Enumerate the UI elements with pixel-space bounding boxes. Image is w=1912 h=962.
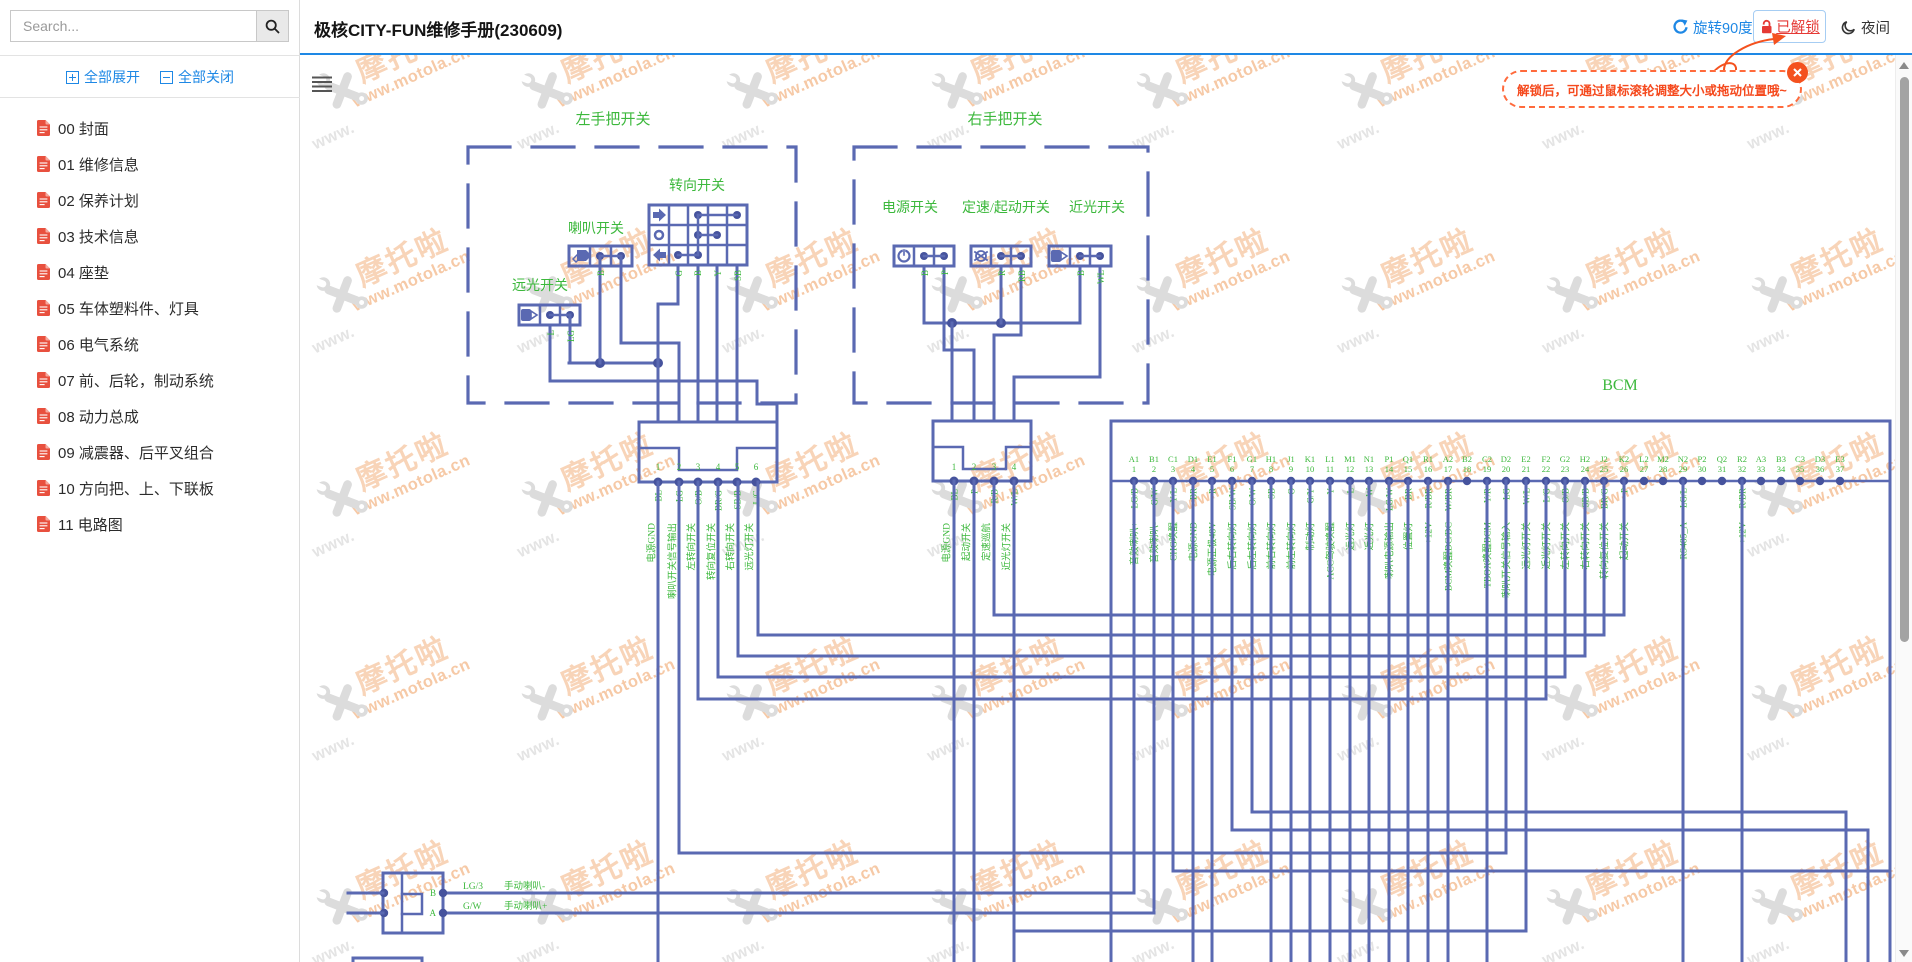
svg-text:B2: B2 [1462, 454, 1472, 464]
svg-text:喇叭开关: 喇叭开关 [568, 221, 624, 237]
wire: X1 pin1 GND down to bottom [657, 482, 660, 962]
svg-text:G1: G1 [1247, 454, 1257, 464]
svg-text:21: 21 [1522, 464, 1531, 474]
svg-text:手动喇叭-: 手动喇叭- [504, 880, 545, 892]
connector X1 pins [654, 478, 663, 487]
svg-text:D1: D1 [1188, 454, 1198, 464]
wire: node to pin1 [951, 323, 954, 421]
svg-text:B: B [1076, 270, 1086, 276]
wire: X2 pin2 start down [973, 481, 976, 962]
svg-text:15: 15 [1404, 464, 1413, 474]
wire: BCM L1 down [1329, 481, 1332, 962]
connector X2 pins [950, 477, 959, 486]
wire: horn left pin down [599, 256, 602, 363]
svg-text:16: 16 [1424, 464, 1433, 474]
wire: power right pin to pin2 [944, 266, 974, 421]
svg-text:4: 4 [1012, 462, 1017, 472]
wire: horn right pin to x679 [621, 256, 679, 422]
wire: BCM C2 down [1486, 481, 1489, 962]
svg-text:LG: LG [566, 330, 576, 342]
svg-text:1: 1 [656, 462, 661, 472]
wire: X2 pin1 GND down [953, 481, 956, 962]
svg-text:2: 2 [972, 462, 977, 472]
svg-text:LG/3: LG/3 [463, 882, 483, 892]
wire: X3 stub left A [348, 912, 383, 915]
svg-text:32: 32 [1738, 464, 1747, 474]
wire: BCM R1 down [1427, 481, 1430, 962]
svg-text:6: 6 [754, 462, 759, 472]
svg-text:远光开关: 远光开关 [512, 278, 568, 294]
BCM pin header line [1111, 480, 1890, 483]
svg-text:5: 5 [735, 462, 740, 472]
svg-text:P1: P1 [1385, 454, 1394, 464]
svg-text:转向开关: 转向开关 [669, 178, 725, 194]
svg-text:远光灯开关: 远光灯开关 [744, 523, 756, 571]
svg-text:30: 30 [1698, 464, 1707, 474]
svg-text:P: P [940, 270, 950, 275]
svg-text:9: 9 [1289, 464, 1293, 474]
wire: turn col3 down [697, 265, 700, 422]
svg-text:M2: M2 [1657, 454, 1669, 464]
svg-text:35: 35 [1796, 464, 1805, 474]
svg-text:27: 27 [1640, 464, 1649, 474]
wire: BCM C1 CHG wake to right [1173, 481, 1890, 871]
svg-text:L: L [546, 330, 556, 336]
wire: BCM G1 rear-left turn lamp [1252, 481, 1846, 962]
svg-text:R: R [997, 270, 1007, 276]
svg-text:G2: G2 [1560, 454, 1570, 464]
wire: low-beam right pin to pin4 [1014, 266, 1100, 421]
svg-text:R1: R1 [1423, 454, 1433, 464]
svg-text:P2: P2 [1698, 454, 1707, 464]
wire: X1 pin4 turn-reset to BCM H2 [718, 481, 1565, 677]
wire: BCM E1 down [1211, 481, 1214, 962]
svg-text:喇叭开关信号输出: 喇叭开关信号输出 [667, 523, 679, 599]
right handlebar switch group box 右手把开关 [854, 147, 1148, 403]
svg-text:31: 31 [1718, 464, 1727, 474]
component box at bottom edge [353, 958, 422, 962]
svg-text:34: 34 [1777, 464, 1786, 474]
horn connector X3 (manual horn) [383, 873, 443, 933]
svg-text:G/W: G/W [463, 902, 482, 912]
wire: X2 pin4 low-beam down [1013, 481, 1016, 962]
svg-text:4: 4 [716, 462, 721, 472]
wire: cruise left pin down [1000, 266, 1003, 323]
svg-text:25: 25 [1600, 464, 1609, 474]
wire: BCM H1 down [1270, 481, 1273, 962]
connector X1 (left handlebar, 6-pin) [639, 422, 777, 482]
svg-text:F2: F2 [1542, 454, 1551, 464]
svg-text:B3: B3 [1776, 454, 1786, 464]
wire: turn col5 down [736, 265, 739, 422]
svg-text:3: 3 [1171, 464, 1175, 474]
svg-text:N2: N2 [1678, 454, 1688, 464]
junction node [653, 358, 663, 368]
svg-text:29: 29 [1679, 464, 1688, 474]
wire: BCM K1 brake lamp down [1309, 481, 1312, 962]
svg-text:J2: J2 [1600, 454, 1608, 464]
wire: BCM M1 down [1349, 481, 1352, 962]
junction node [947, 318, 957, 328]
svg-text:1: 1 [1132, 464, 1136, 474]
svg-text:B: B [596, 270, 606, 276]
svg-text:36: 36 [1816, 464, 1825, 474]
svg-text:23: 23 [1561, 464, 1570, 474]
left handlebar switch group box 左手把开关 [468, 147, 796, 403]
svg-text:14: 14 [1385, 464, 1394, 474]
wire: BCM R2 down [1741, 481, 1744, 962]
svg-text:A: A [430, 908, 437, 918]
svg-text:B: B [430, 888, 436, 898]
svg-text:E1: E1 [1207, 454, 1216, 464]
svg-text:F1: F1 [1228, 454, 1237, 464]
wire: turn col2 jog to node [658, 265, 678, 422]
wire: BCM Q1 down [1407, 481, 1410, 962]
wire: BCM N2 down [1682, 481, 1685, 962]
svg-text:J1: J1 [1287, 454, 1295, 464]
svg-text:电源GND: 电源GND [646, 523, 658, 563]
wire: ground bus y363 [569, 362, 658, 365]
X3 pins [380, 889, 388, 897]
svg-text:18: 18 [1463, 464, 1472, 474]
svg-text:11: 11 [1326, 464, 1334, 474]
svg-text:7: 7 [1250, 464, 1254, 474]
wire: X1 pin6 high-beam to BCM K2 [758, 481, 1604, 635]
svg-text:5: 5 [1210, 464, 1214, 474]
svg-text:C3: C3 [1795, 454, 1805, 464]
svg-text:B: B [693, 270, 703, 276]
wire: high-beam right pin to ground bus [569, 315, 570, 363]
wire: BCM A1 audio horn+ to horn connector [443, 481, 1134, 893]
wire: power left pin down [923, 266, 926, 323]
svg-text:N1: N1 [1364, 454, 1374, 464]
svg-text:右转向开关: 右转向开关 [725, 523, 737, 571]
svg-text:起动开关: 起动开关 [961, 523, 973, 562]
svg-text:SB: SB [733, 270, 743, 281]
wire: X3 stub left B [348, 892, 383, 895]
wire: BCM A2 down [1447, 481, 1450, 962]
wire: low-beam left pin down [1079, 266, 1082, 323]
svg-text:近光开关: 近光开关 [1069, 200, 1125, 216]
svg-text:E3: E3 [1835, 454, 1844, 464]
svg-text:Q1: Q1 [1403, 454, 1413, 464]
svg-text:20: 20 [1502, 464, 1511, 474]
svg-text:D3: D3 [1815, 454, 1825, 464]
svg-text:L1: L1 [1325, 454, 1334, 464]
svg-text:6: 6 [1230, 464, 1234, 474]
svg-text:Y: Y [713, 270, 723, 277]
svg-text:E2: E2 [1521, 454, 1530, 464]
svg-text:L2: L2 [1639, 454, 1648, 464]
svg-text:转向复位开关: 转向复位开关 [706, 523, 718, 581]
wire: BCM D1 down [1192, 481, 1195, 962]
wire: high-beam left pin to pin6 [550, 325, 777, 422]
junction node [996, 318, 1006, 328]
svg-text:A3: A3 [1756, 454, 1766, 464]
svg-text:Q2: Q2 [1717, 454, 1727, 464]
svg-text:左手把开关: 左手把开关 [575, 111, 650, 128]
svg-text:8: 8 [1269, 464, 1273, 474]
svg-text:电源GND: 电源GND [941, 523, 953, 563]
svg-text:RB: RB [1017, 270, 1027, 282]
svg-text:M1: M1 [1344, 454, 1356, 464]
svg-text:3: 3 [992, 462, 997, 472]
svg-text:3: 3 [696, 462, 701, 472]
svg-text:12: 12 [1346, 464, 1355, 474]
wire: low-beam bus to BCM E2 [1014, 481, 1526, 931]
svg-text:26: 26 [1620, 464, 1629, 474]
junction node [595, 358, 605, 368]
wire: BCM F1 rear-right turn lamp [1232, 481, 1868, 962]
wire: turn col4 down [716, 265, 719, 422]
svg-text:C2: C2 [1482, 454, 1492, 464]
svg-text:2: 2 [1152, 464, 1156, 474]
svg-text:D2: D2 [1501, 454, 1511, 464]
wire: X1 pin2 horn-signal to bus y853 [679, 481, 1506, 853]
svg-text:左转向开关: 左转向开关 [686, 523, 698, 571]
svg-text:2: 2 [677, 462, 682, 472]
wire: BCM N1 down [1368, 481, 1371, 962]
svg-text:右手把开关: 右手把开关 [967, 111, 1042, 128]
svg-text:K1: K1 [1305, 454, 1315, 464]
wire: X2 pin3 cruise to BCM [994, 481, 1624, 615]
wire: BCM J1 down [1290, 481, 1293, 962]
wire: X1 pin3 left-turn to BCM G2 [698, 481, 1546, 699]
svg-text:A2: A2 [1443, 454, 1453, 464]
svg-text:G: G [674, 270, 684, 277]
svg-text:H2: H2 [1580, 454, 1590, 464]
svg-text:24: 24 [1581, 464, 1590, 474]
wire: BCM B1 audio horn- to horn connector [443, 481, 1154, 913]
svg-text:K2: K2 [1619, 454, 1629, 464]
svg-text:17: 17 [1444, 464, 1453, 474]
svg-text:A1: A1 [1129, 454, 1139, 464]
svg-text:手动喇叭+: 手动喇叭+ [504, 900, 547, 912]
wire: BCM P1 down [1388, 481, 1391, 962]
svg-text:定速巡航: 定速巡航 [981, 523, 993, 562]
wire: cruise right pin to pin3 [994, 266, 1021, 421]
svg-text:B: B [920, 270, 930, 276]
svg-text:R2: R2 [1737, 454, 1747, 464]
svg-text:近光灯开关: 近光灯开关 [1001, 523, 1013, 571]
svg-text:13: 13 [1365, 464, 1374, 474]
svg-text:B1: B1 [1149, 454, 1159, 464]
svg-text:37: 37 [1836, 464, 1845, 474]
svg-text:10: 10 [1306, 464, 1315, 474]
svg-text:BCM: BCM [1602, 377, 1638, 394]
svg-text:22: 22 [1542, 464, 1551, 474]
wire: X1 pin5 right-turn to BCM J2 [738, 481, 1585, 656]
svg-text:电源开关: 电源开关 [882, 200, 938, 216]
connector X2 (right handlebar, 4-pin) [933, 421, 1031, 481]
svg-text:H1: H1 [1266, 454, 1276, 464]
svg-text:WL: WL [1096, 270, 1106, 284]
svg-text:C1: C1 [1168, 454, 1178, 464]
wire: bus y323 [924, 322, 1080, 325]
svg-text:19: 19 [1483, 464, 1492, 474]
svg-text:28: 28 [1659, 464, 1668, 474]
svg-text:定速/起动开关: 定速/起动开关 [962, 200, 1050, 216]
svg-text:1: 1 [952, 462, 957, 472]
svg-text:33: 33 [1757, 464, 1766, 474]
menu toggle icon [313, 78, 331, 92]
